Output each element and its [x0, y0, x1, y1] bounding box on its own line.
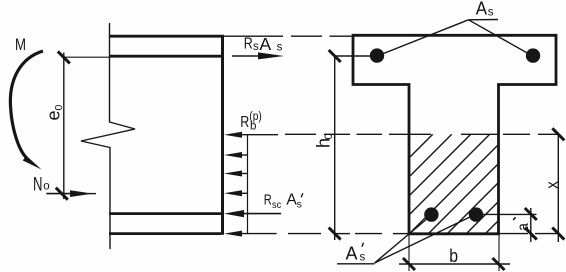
dimension line b [399, 263, 510, 265]
beam right edge [221, 35, 224, 235]
label x [543, 181, 562, 189]
svg-text:b: b [449, 245, 458, 266]
top fiber dash line [224, 35, 283, 37]
rebar dot As right [526, 48, 540, 62]
As' level line [483, 213, 537, 215]
rebar dot As' left [424, 207, 438, 221]
stress arrow 1 [240, 134, 278, 136]
bottom fiber dash line [288, 233, 557, 235]
tick e0 top [58, 51, 70, 63]
tick x top [552, 128, 564, 140]
svg-text:s: s [488, 6, 494, 18]
tick e0 bottom [56, 188, 68, 200]
svg-text:o: o [43, 180, 49, 192]
svg-text:s: s [360, 251, 366, 263]
leader As to left dot [381, 20, 469, 55]
tick h0 top [329, 50, 341, 62]
dimension line x [557, 134, 559, 242]
svg-text:R: R [244, 36, 253, 53]
tick h0 bottom [329, 228, 341, 240]
force Rs As arrow [232, 55, 262, 57]
beam bottom flange top line [109, 212, 224, 215]
svg-text:A: A [346, 243, 358, 263]
dimension line h0 [334, 56, 336, 240]
force Rsc As' arrow [242, 213, 281, 215]
svg-text:b: b [250, 121, 256, 133]
svg-text:s: s [277, 41, 283, 53]
svg-text:sc: sc [272, 199, 281, 211]
svg-text:R: R [264, 191, 272, 208]
svg-text:s: s [297, 198, 302, 210]
tick a' bottom [525, 228, 537, 240]
beam top flange bottom line [109, 55, 224, 58]
neutral axis dash line [285, 133, 557, 135]
svg-text:s: s [253, 41, 259, 53]
svg-text:a: a [515, 223, 532, 231]
T cross-section outline [353, 35, 556, 234]
leader As to right dot [469, 20, 530, 54]
beam top flange top line [109, 35, 224, 38]
svg-text:R: R [240, 114, 249, 131]
leader As' to right dot [375, 217, 472, 264]
beam bottom flange bottom line [109, 232, 221, 235]
As' label underline [337, 263, 375, 265]
tick x bottom [552, 228, 564, 240]
moment arc arrowhead [23, 156, 42, 170]
svg-text:M: M [15, 36, 26, 54]
label h0 [314, 133, 336, 148]
b extension line left [408, 234, 410, 271]
tick b right [493, 258, 505, 270]
rebar dot As left [370, 48, 384, 62]
As level line [335, 55, 377, 57]
hatching of compression zone [333, 134, 566, 234]
stress diagram edge [247, 135, 249, 234]
stress arrow 4 [242, 192, 248, 194]
svg-text:N: N [33, 174, 43, 195]
As label underline [469, 19, 499, 21]
b extension line right [498, 234, 500, 271]
tick b left [403, 258, 415, 270]
stress arrow 6 [242, 233, 277, 235]
dimension line a' [530, 208, 532, 242]
stress arrow 3 [242, 173, 248, 175]
moment arc M [10, 51, 43, 159]
stress arrow 2 [242, 154, 248, 156]
beam left edge with break [81, 23, 135, 249]
leader As' to left dot [375, 218, 429, 263]
dimension line e0 [63, 53, 65, 200]
force N0 arrow [46, 193, 73, 195]
label e0 [43, 104, 65, 120]
label a' [515, 223, 532, 231]
svg-text:x: x [543, 181, 562, 189]
rebar dot As' right [469, 207, 483, 221]
svg-text:A: A [476, 0, 487, 19]
e0 extension line [64, 56, 109, 58]
tick a' top [525, 208, 537, 220]
